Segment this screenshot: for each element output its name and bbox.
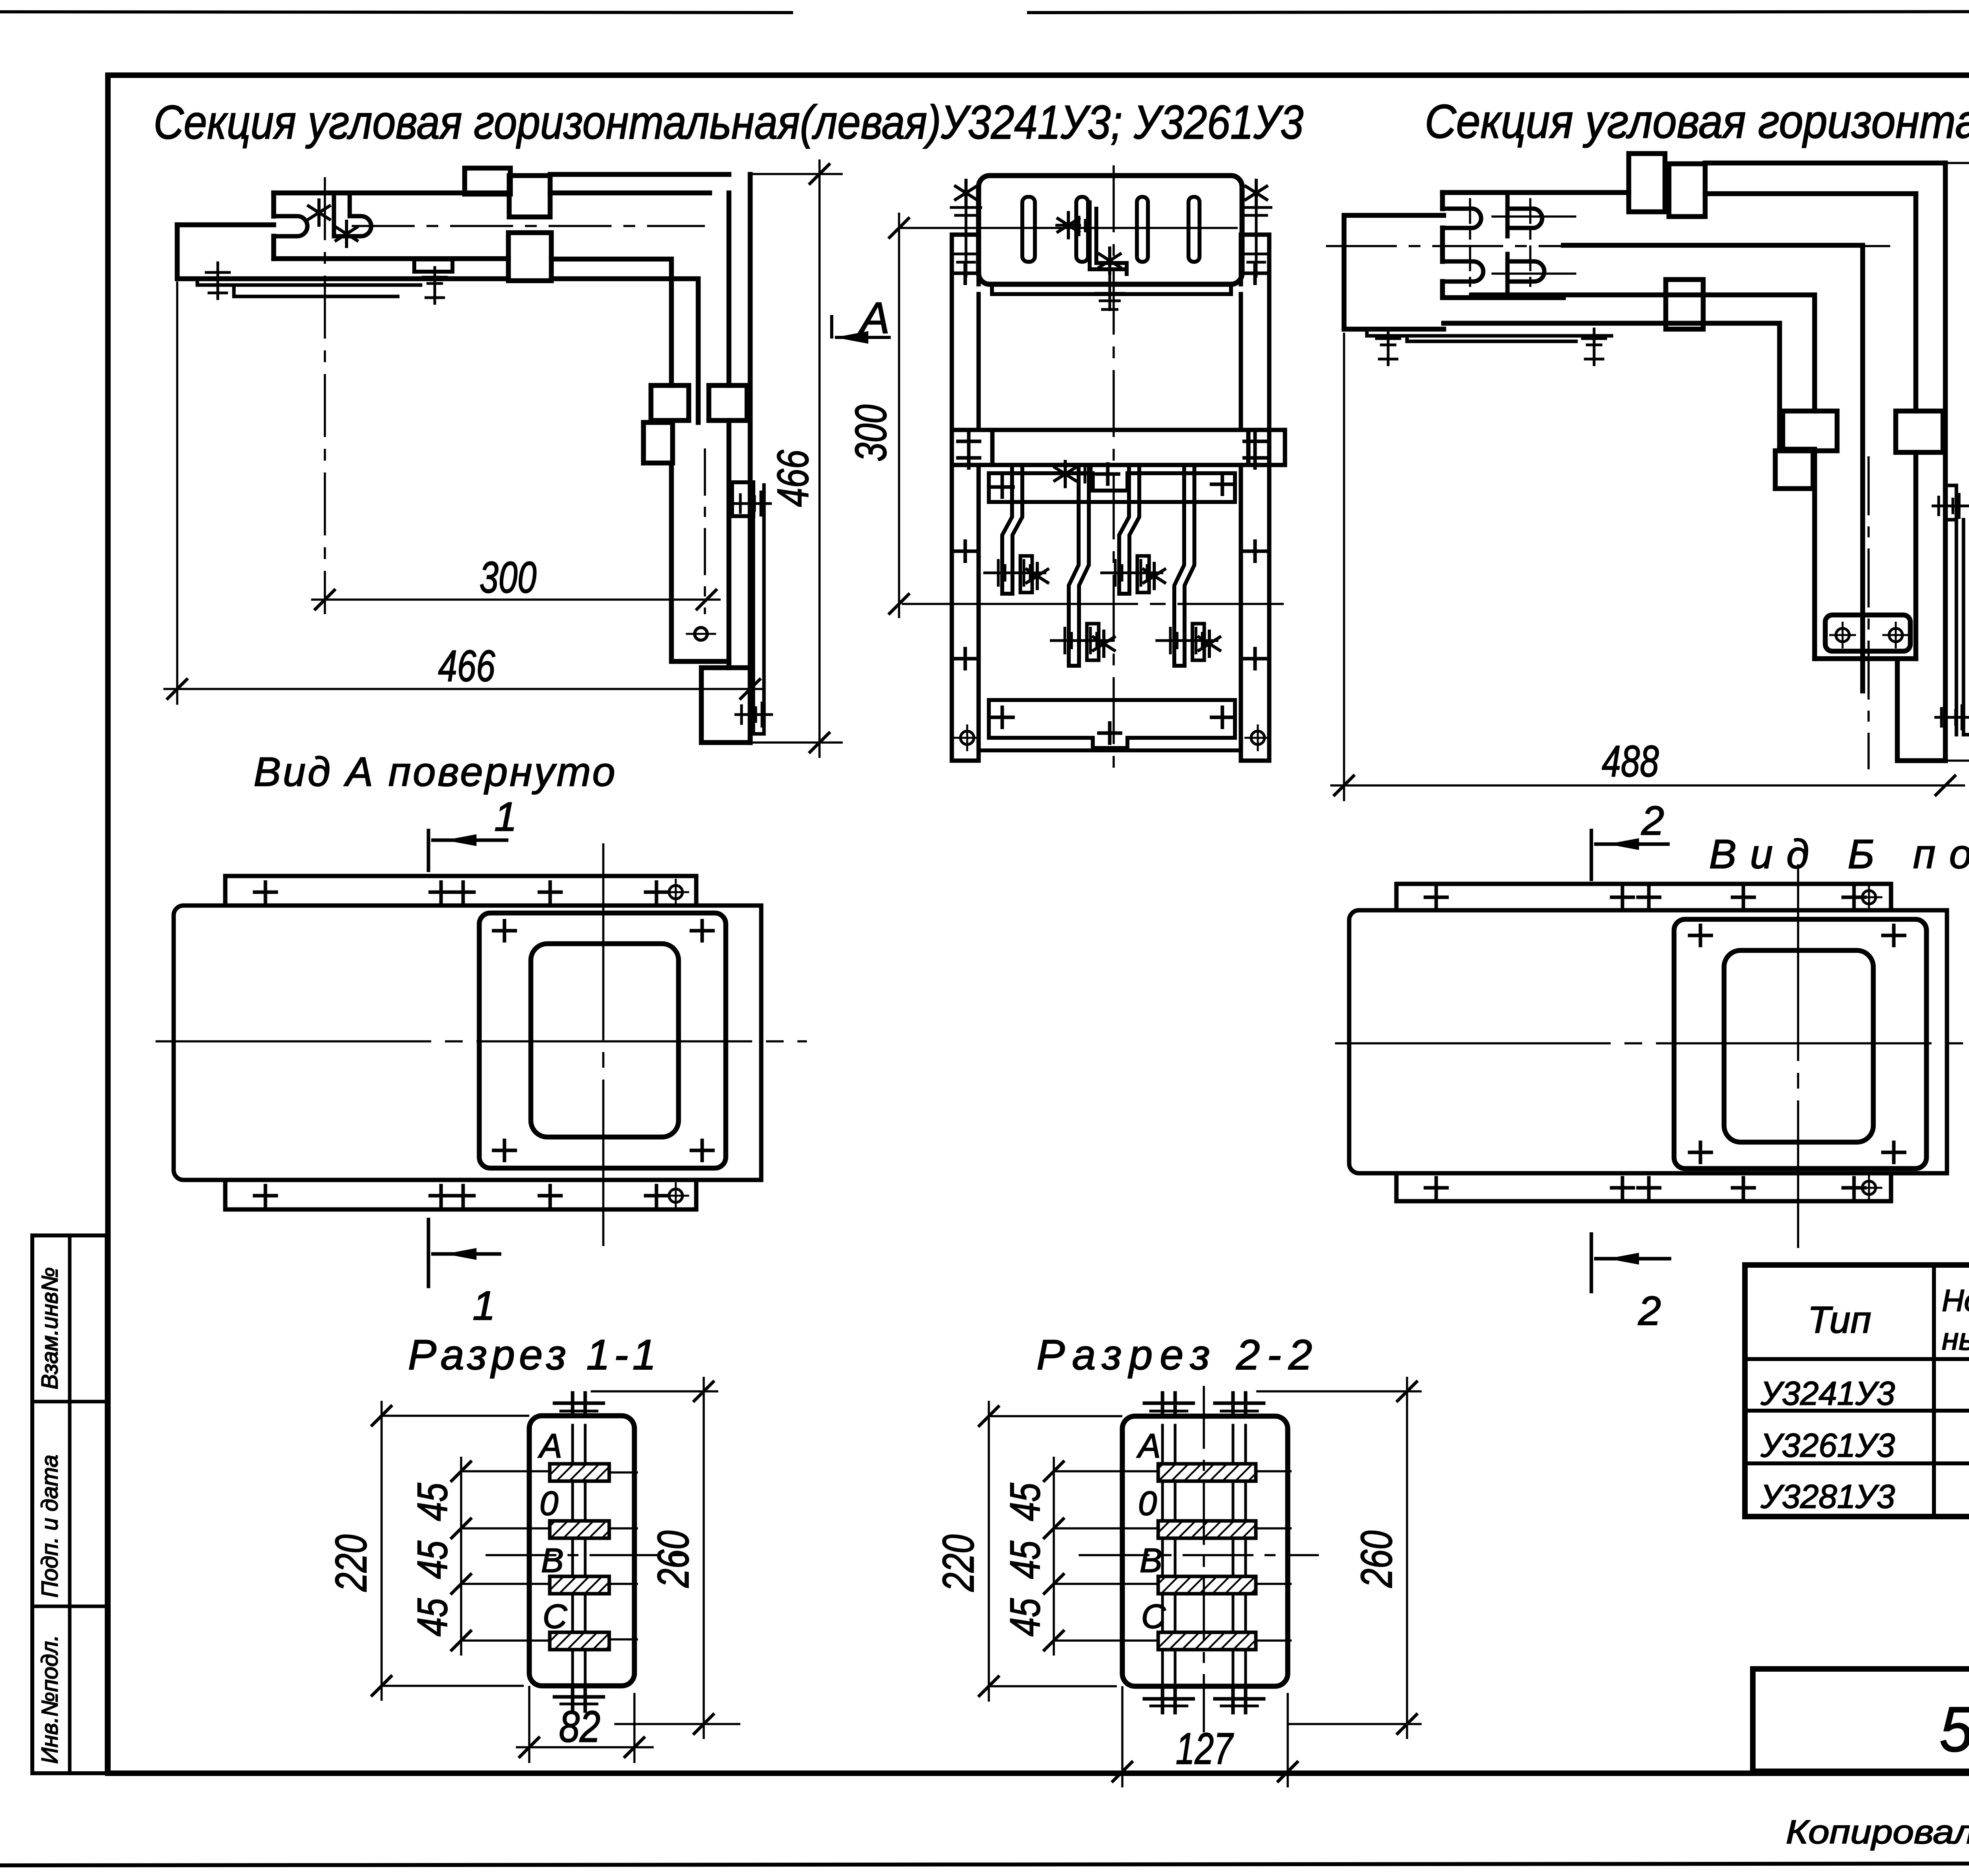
- clamp under plate C1: [414, 259, 452, 272]
- svg-text:Разрез 2-2: Разрез 2-2: [1036, 1331, 1312, 1378]
- svg-text:C: C: [543, 1598, 567, 1635]
- top sheet edge line: [0, 12, 792, 13]
- left mounting rail: [952, 235, 979, 761]
- bent busbar 3 (short): [1119, 465, 1139, 594]
- foot hole 2: [1882, 622, 1909, 648]
- svg-text:45: 45: [408, 1598, 456, 1637]
- star bolt on slot 2: [335, 220, 358, 248]
- dim line 45s 2-2: [1053, 1457, 1055, 1656]
- fork slot 2a: [1507, 193, 1542, 236]
- busbar 4 bolt: [1155, 627, 1221, 658]
- side plate bolt top v2: [1932, 493, 1969, 519]
- dim 260 2-2: [1406, 1377, 1408, 1739]
- centerline leg: [704, 448, 706, 614]
- cross band: [952, 430, 1269, 465]
- through bolt rod 1-1: [573, 1393, 585, 1711]
- svg-text:466: 466: [438, 641, 496, 691]
- bottom bracket marks: [990, 706, 1015, 729]
- bent busbar 1 (short): [1002, 465, 1022, 594]
- bolt pad bar2: [1087, 624, 1099, 660]
- view arrow A: [832, 315, 891, 339]
- bolt below plate left v2: [1375, 328, 1401, 366]
- svg-text:2: 2: [1641, 798, 1664, 844]
- busbar 3 bolt: [1100, 559, 1166, 590]
- bus C 2-2: [1158, 1632, 1256, 1650]
- svg-text:466: 466: [768, 450, 818, 507]
- body plate vidB: [1349, 910, 1947, 1173]
- band washer marks: [956, 430, 981, 453]
- foot hole 1: [1829, 622, 1856, 648]
- body centerline 1-1: [486, 1554, 687, 1556]
- bolt below clamp C1: [422, 266, 448, 305]
- svg-text:Вид А повернуто: Вид А повернуто: [254, 749, 615, 795]
- bolt ticks 1-1: [554, 1402, 603, 1405]
- svg-text:5.407-70.0.30ГЧ: 5.407-70.0.30ГЧ: [1939, 1694, 1969, 1765]
- left sidebar stamp table: [32, 1235, 107, 1773]
- clamp block B2: [509, 176, 550, 217]
- centerline horizontal vidB: [1335, 1042, 1969, 1044]
- busbar 1 bolt: [983, 559, 1049, 590]
- side plate bolt bottom: [734, 702, 773, 728]
- bottom circles: [954, 724, 981, 751]
- subplate lines under lower plate: [197, 279, 421, 296]
- cap slot 1: [1022, 197, 1035, 262]
- svg-text:0: 0: [540, 1485, 558, 1522]
- svg-text:45: 45: [1001, 1541, 1049, 1579]
- centerline vertical at 300-ref: [324, 177, 326, 614]
- svg-text:488: 488: [1602, 737, 1659, 786]
- svg-text:У3261У3: У3261У3: [1760, 1427, 1895, 1464]
- leg clamp C: [1775, 451, 1813, 489]
- outer strip corner verticals: [1943, 163, 1948, 761]
- cap slot 3: [1137, 197, 1148, 262]
- flange strip under cap: [992, 284, 1231, 294]
- band washer right: [1248, 430, 1285, 465]
- leg clamp B6: [643, 422, 673, 463]
- svg-text:300: 300: [480, 553, 537, 602]
- bolt below plate right v2: [1581, 328, 1607, 366]
- svg-text:А: А: [858, 293, 890, 343]
- bus B 2-2: [1158, 1576, 1256, 1594]
- right mounting rail: [1241, 235, 1269, 761]
- fork slot 2b: [1507, 254, 1544, 298]
- bottom rail vidA: [225, 1180, 696, 1209]
- body centerline 2-2: [1079, 1554, 1319, 1556]
- svg-text:У3281У3: У3281У3: [1760, 1478, 1895, 1515]
- U-slot left: [274, 216, 308, 236]
- bus A 2-2: [1158, 1464, 1256, 1481]
- dim 488 horizontal bottom: [1330, 333, 1965, 801]
- svg-text:A: A: [538, 1427, 562, 1465]
- dim 220 2-2: [988, 1401, 990, 1702]
- dim 466 vertical right: [750, 159, 843, 758]
- inner opening vidA: [531, 944, 679, 1137]
- centerline vertical front view 1: [1112, 165, 1115, 778]
- svg-text:Секция угловая горизонтальная(: Секция угловая горизонтальная(левая)У328…: [1425, 94, 1969, 148]
- band washer left: [952, 430, 992, 465]
- section mark 1 bottom: [428, 1218, 501, 1288]
- fork slot centerlines: [1469, 199, 1471, 295]
- centerline horizontal vidA: [156, 1040, 807, 1043]
- svg-text:Секция угловая горизонтальная(: Секция угловая горизонтальная(левая)У324…: [154, 95, 1303, 149]
- top-left bolt with star: [950, 197, 982, 278]
- svg-text:Номиналь-: Номиналь-: [1942, 1283, 1969, 1318]
- svg-text:220: 220: [934, 1535, 983, 1592]
- cross slot at centerline: [334, 193, 371, 236]
- rail marks vidA bottom: [253, 1184, 278, 1207]
- dim 127 2-2: [1121, 1686, 1124, 1787]
- dim 260 1-1: [703, 1377, 705, 1739]
- dim 300 vertical front view 1: [898, 213, 900, 618]
- section body 2-2: [1122, 1416, 1288, 1686]
- svg-text:82: 82: [559, 1702, 601, 1751]
- bus C 1-1: [550, 1632, 609, 1650]
- svg-text:Тип: Тип: [1808, 1299, 1871, 1341]
- bolt star under L-bracket: [1098, 246, 1122, 275]
- svg-text:B: B: [1140, 1542, 1162, 1580]
- through bolt rod L 2-2: [1162, 1393, 1175, 1713]
- dim 466 horizontal bottom: [163, 281, 764, 705]
- svg-text:2: 2: [1638, 1288, 1661, 1334]
- extension lines from bus centers 1-1: [382, 1377, 740, 1763]
- svg-text:488: 488: [1962, 442, 1969, 499]
- centerline horizontal arm view2: [1326, 245, 1890, 247]
- bottom plate line: [979, 748, 1241, 752]
- fork slot 1a: [1442, 209, 1481, 228]
- leg clamp B: [1783, 411, 1837, 451]
- svg-text:45: 45: [1001, 1598, 1049, 1637]
- top rail vidA: [225, 876, 696, 906]
- bent busbar 4 (long): [1174, 465, 1194, 666]
- through bolt rod R 2-2: [1233, 1393, 1246, 1713]
- star bolt on slot 1: [307, 198, 331, 227]
- clamp block B3: [508, 233, 551, 281]
- svg-text:45: 45: [1001, 1483, 1049, 1521]
- centerline horizontal arm: [352, 225, 705, 227]
- svg-text:1: 1: [473, 1283, 495, 1329]
- section mark 2 bottom: [1591, 1232, 1671, 1293]
- svg-text:У3241У3: У3241У3: [1760, 1375, 1895, 1412]
- bottom rail vidB: [1396, 1173, 1891, 1201]
- svg-text:ный ток, А: ный ток, А: [1942, 1322, 1969, 1356]
- bolt below plate left: [205, 261, 231, 300]
- foot plate: [701, 668, 750, 743]
- foot block with holes: [1825, 615, 1910, 651]
- svg-text:220: 220: [326, 1535, 376, 1592]
- svg-text:Взам.инв№: Взам.инв№: [37, 1267, 63, 1389]
- section body 1-1: [529, 1416, 634, 1686]
- fork slot 1b: [1442, 261, 1483, 281]
- L-bracket inside cap: [1090, 202, 1127, 274]
- flange corner marks vidA: [492, 919, 517, 943]
- rail marks vidA top: [253, 880, 278, 904]
- svg-text:260: 260: [1352, 1531, 1401, 1588]
- center tab of bracket: [1093, 473, 1127, 491]
- outer strip top: [1705, 161, 1945, 166]
- bolt pad bar4: [1192, 624, 1204, 660]
- dim line 45s 1-1: [460, 1457, 462, 1656]
- bolt under cap center: [1094, 269, 1125, 311]
- side plate bolt top: [733, 491, 772, 517]
- svg-text:300: 300: [846, 405, 896, 462]
- clamp block B2: [1669, 164, 1705, 217]
- left bus plate: [1344, 215, 1444, 329]
- extension lines 2-2: [989, 1377, 1422, 1787]
- side overlay plate: [732, 482, 753, 516]
- hole in lower bar: [695, 628, 707, 640]
- section mark 2 top: [1591, 829, 1670, 881]
- clamp block M1: [1666, 280, 1703, 329]
- flange frame vidB: [1674, 919, 1926, 1169]
- svg-text:45: 45: [408, 1541, 456, 1579]
- leg clamp B4: [651, 385, 689, 420]
- svg-text:1: 1: [494, 794, 517, 840]
- leg clamp A: [1896, 411, 1943, 452]
- busbar 2 bolt: [1050, 627, 1116, 658]
- svg-text:Копировал Ключникова: Копировал Ключникова: [1786, 1813, 1969, 1850]
- dim 82 1-1: [528, 1686, 530, 1763]
- bracket strip marks: [990, 475, 1015, 499]
- title block: [1753, 1669, 1969, 1771]
- inner opening vidB: [1724, 950, 1873, 1142]
- flange frame vidA: [479, 913, 726, 1168]
- svg-text:260: 260: [649, 1531, 698, 1588]
- dim 300 horizontal: [311, 598, 721, 601]
- bolt ticks 2-2: [1144, 1402, 1193, 1405]
- svg-text:C: C: [1141, 1598, 1166, 1635]
- bolt star on L-bracket: [1057, 211, 1080, 239]
- lower bus plate: [177, 225, 508, 279]
- svg-text:B: B: [541, 1542, 564, 1580]
- subplate lines under left plate: [1367, 329, 1611, 341]
- bus B 1-1: [550, 1576, 609, 1594]
- clamp block B1: [465, 168, 510, 194]
- centerline vertical vidB: [1797, 864, 1799, 1248]
- phase line through cap slots: [899, 227, 1238, 229]
- flange corner marks vidB: [1688, 924, 1713, 947]
- dim 220 1-1: [380, 1401, 383, 1701]
- bolt pad bar3: [1137, 556, 1149, 593]
- rail marks vidB bottom: [1424, 1176, 1449, 1200]
- bottom bracket: [989, 700, 1235, 748]
- cap slot 2: [1076, 197, 1088, 262]
- bottom sheet edge line: [0, 1863, 1969, 1865]
- side overlay plate: [1945, 485, 1956, 520]
- bus A 1-1: [550, 1464, 609, 1481]
- inner strip: [1563, 245, 1863, 691]
- side plate bolt bottom v2: [1934, 704, 1969, 730]
- clamp block B1: [1629, 154, 1665, 212]
- upper slotted plate outline: [274, 191, 509, 196]
- section mark 1 top: [428, 829, 508, 872]
- svg-text:Подп. и дата: Подп. и дата: [37, 1455, 63, 1598]
- bolt pad bar1: [1020, 556, 1032, 593]
- foot plate bottom: [1897, 660, 1945, 761]
- bus O 1-1: [550, 1521, 609, 1538]
- centerline vertical vidA: [602, 843, 604, 1246]
- bent busbar 2 (long): [1069, 465, 1089, 666]
- dim 488 vertical right: [1945, 148, 1969, 776]
- svg-text:A: A: [1136, 1427, 1161, 1465]
- inner strip after block3: [551, 259, 671, 385]
- svg-text:0: 0: [1138, 1485, 1157, 1522]
- bus O 2-2: [1158, 1521, 1256, 1538]
- svg-text:127: 127: [1176, 1724, 1234, 1773]
- centerline horizontal front view 1: [902, 603, 1284, 605]
- outer strip corner verticals: [748, 174, 753, 743]
- body plate vidA: [174, 906, 761, 1180]
- cap slot 4: [1188, 197, 1200, 262]
- wire: top outer strip after joint: [550, 172, 729, 177]
- svg-text:Инв.№подл.: Инв.№подл.: [37, 1635, 63, 1764]
- top cap with slots: [979, 176, 1242, 284]
- rail plus marks: [953, 261, 978, 285]
- leg clamp B5: [709, 385, 747, 420]
- lower panel bracket strip: [989, 473, 1235, 502]
- top-right bolt with star: [1240, 197, 1272, 278]
- svg-text:Разрез 1-1: Разрез 1-1: [408, 1331, 656, 1378]
- bolt centerline 2-2: [1203, 1386, 1205, 1732]
- fork plate outline: [1442, 190, 1629, 195]
- rail marks vidB top: [1424, 885, 1449, 909]
- svg-text:45: 45: [408, 1483, 456, 1521]
- top rail vidB: [1396, 884, 1891, 910]
- centerline leg view2: [1867, 456, 1870, 769]
